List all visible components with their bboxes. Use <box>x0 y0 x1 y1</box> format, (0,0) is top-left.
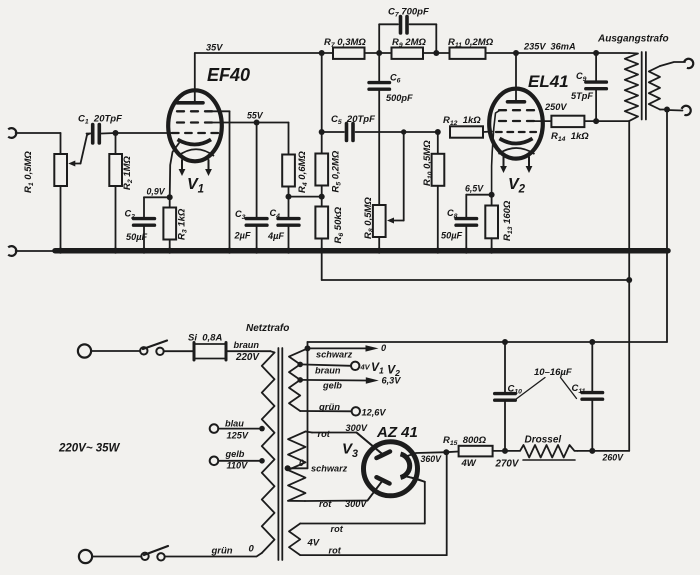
label 125V <box>227 431 249 441</box>
V1 cathode lead <box>170 143 179 197</box>
resistor R7 <box>333 48 365 59</box>
node feedback <box>626 277 632 283</box>
label EF40 <box>207 65 250 85</box>
resistor R4 <box>282 155 295 197</box>
label C1 20TpF <box>78 114 122 126</box>
V1 grid g1 <box>172 132 218 134</box>
capacitor C2 <box>134 197 155 248</box>
bus junction x491.6 <box>489 248 495 254</box>
capacitor C6 <box>369 53 390 205</box>
resistor R15 <box>446 446 505 457</box>
speaker terminal top <box>684 57 695 69</box>
svg-text:gelb: gelb <box>225 449 245 459</box>
tap blau <box>210 424 265 433</box>
label V3 <box>342 441 358 460</box>
wire cathode to C2 <box>144 196 170 198</box>
svg-text:schwarz: schwarz <box>311 464 348 474</box>
label 12,6V <box>362 408 387 418</box>
V1 heater arc <box>178 149 214 156</box>
node heater 0 tap <box>305 345 311 351</box>
label schwarz <box>316 350 353 360</box>
svg-text:4V: 4V <box>307 538 320 549</box>
node C9 junction <box>593 50 599 56</box>
resistor R3 <box>163 197 176 248</box>
pointer C10 <box>516 378 546 400</box>
label R13 160&#937; <box>502 200 514 241</box>
wire 260V <box>592 450 629 452</box>
wire 4V bottom <box>300 452 447 555</box>
wire feedback below bus <box>322 279 630 281</box>
resistor R11 <box>450 48 486 59</box>
V3 anode 1 <box>357 433 391 459</box>
V3 anode 2 <box>368 477 390 500</box>
svg-text:R9 2MΩ: R9 2MΩ <box>392 37 426 49</box>
ground bus <box>55 248 668 254</box>
label braun heater <box>315 366 341 376</box>
node cathode/R15 <box>443 449 449 455</box>
tube V1 envelope <box>168 90 222 161</box>
wire B+ vertical <box>628 121 630 451</box>
svg-text:EL41: EL41 <box>528 72 569 91</box>
V3 cathode lead top <box>406 452 446 456</box>
label R5 0,2M&#937; <box>331 150 343 192</box>
svg-text:260V: 260V <box>602 453 625 463</box>
resistor R10 <box>432 132 445 249</box>
svg-text:EF40: EF40 <box>207 65 250 85</box>
node 270V <box>502 448 508 454</box>
svg-text:0,9V: 0,9V <box>147 187 166 197</box>
svg-text:AZ 41: AZ 41 <box>376 424 418 441</box>
svg-text:360V: 360V <box>421 454 443 464</box>
resistor R13 <box>485 195 498 249</box>
svg-text:300V: 300V <box>346 423 368 433</box>
node EL41 anode junction <box>513 50 519 56</box>
svg-text:55V: 55V <box>247 111 264 121</box>
bus junction x256.6 <box>254 248 260 254</box>
wire heater 0 to ground line <box>307 342 309 348</box>
mains terminal top <box>78 344 91 357</box>
svg-text:5TpF: 5TpF <box>571 91 593 101</box>
svg-text:35V: 35V <box>206 43 223 53</box>
svg-text:rot: rot <box>319 499 332 509</box>
svg-text:R5 0,2MΩ: R5 0,2MΩ <box>331 150 343 192</box>
svg-text:270V: 270V <box>495 459 520 470</box>
wire to C8 <box>466 194 491 196</box>
node R12/R10 <box>435 129 441 135</box>
wire input <box>16 133 61 154</box>
label 0,9V <box>147 187 166 197</box>
label Drossel <box>525 435 562 446</box>
node R9/R11 junction <box>433 50 439 56</box>
4V winding <box>289 524 300 556</box>
label C2 <box>125 209 136 221</box>
svg-text:R11 0,2MΩ: R11 0,2MΩ <box>448 37 494 49</box>
label braun <box>234 340 260 350</box>
svg-text:4µF: 4µF <box>267 231 284 241</box>
wire grid1 V1 <box>116 132 177 134</box>
node 6,5V <box>489 192 495 198</box>
V1 heater pin left <box>179 160 186 176</box>
label V1 <box>187 176 204 196</box>
capacitor C8 <box>456 195 477 249</box>
label gruen 0 <box>211 544 255 557</box>
switch S bottom <box>141 546 168 561</box>
V2 grid g1 <box>496 131 536 133</box>
svg-text:R4 0,6MΩ: R4 0,6MΩ <box>297 151 309 193</box>
svg-text:6,3V: 6,3V <box>382 376 402 386</box>
label C5 20TpF <box>331 114 375 126</box>
svg-text:220V: 220V <box>235 352 260 363</box>
svg-text:R3 1kΩ: R3 1kΩ <box>177 208 189 240</box>
svg-text:235V 36mA: 235V 36mA <box>523 42 576 52</box>
label 4V <box>307 538 320 549</box>
node R7/R9 junction <box>376 50 382 56</box>
tap gelb heater <box>297 377 378 384</box>
svg-text:R6 50kΩ: R6 50kΩ <box>333 206 345 243</box>
label R7 0,3M&#937; <box>324 37 366 49</box>
svg-text:2µF: 2µF <box>234 231 251 241</box>
svg-text:braun: braun <box>315 366 341 376</box>
label 360V <box>421 454 443 464</box>
label Netztrafo <box>246 323 289 334</box>
fuse Si 0,8A <box>194 343 226 361</box>
svg-text:300V: 300V <box>345 499 367 509</box>
node 0,9V <box>167 194 173 200</box>
resistor R12 <box>450 126 492 137</box>
label 110V <box>227 461 249 471</box>
label R12 1k&#937; <box>443 115 481 127</box>
node R5/R6 <box>319 194 325 200</box>
input terminal bottom <box>8 246 16 256</box>
label gruen heater <box>318 402 340 413</box>
svg-text:R13 160Ω: R13 160Ω <box>502 200 514 241</box>
wire B+ rail 35V/235V <box>195 52 629 54</box>
svg-text:blau: blau <box>225 419 244 429</box>
pointer C11 <box>561 378 577 399</box>
bus junction x288.5 <box>285 248 291 254</box>
svg-text:C7 700pF: C7 700pF <box>388 7 429 19</box>
bus junction x169.7 <box>167 248 173 254</box>
mains transformer core <box>278 348 282 560</box>
node C10 ground <box>502 339 508 345</box>
svg-text:50µF: 50µF <box>441 231 463 241</box>
speaker terminal bottom <box>681 104 692 116</box>
resistor R6 <box>315 207 328 281</box>
label 500pF <box>386 93 413 103</box>
svg-text:grün: grün <box>318 402 340 413</box>
svg-text:0: 0 <box>381 343 387 353</box>
capacitor C7 <box>379 17 436 54</box>
svg-text:R12 1kΩ: R12 1kΩ <box>443 115 481 127</box>
wire fuse-primary <box>226 351 275 352</box>
tube V2 envelope <box>489 89 543 159</box>
V2 grid g3 <box>492 110 534 195</box>
label 6,3V <box>382 376 402 386</box>
label 4V V1 V2 <box>360 360 401 378</box>
capacitor C4 <box>278 197 299 249</box>
wire choke right <box>578 450 593 452</box>
svg-text:C5 20TpF: C5 20TpF <box>331 114 375 126</box>
label 300V bottom <box>345 499 367 509</box>
wire HV top rot 300V <box>306 432 384 455</box>
bus junction x115.5 <box>112 248 118 254</box>
node secondary bottom <box>664 107 670 113</box>
output transformer core <box>642 52 646 120</box>
resistor R2 <box>109 133 122 249</box>
svg-text:R7 0,3MΩ: R7 0,3MΩ <box>324 37 366 49</box>
label C9 <box>576 71 587 83</box>
wire anode column <box>321 53 323 154</box>
resistor R5 <box>315 154 328 207</box>
label Ausgangstrafo <box>597 34 669 45</box>
label gelb 110 <box>225 449 245 459</box>
wire mains top <box>91 350 140 352</box>
wire mains bottom <box>92 556 141 558</box>
wire secondary to ground line <box>666 110 668 343</box>
label V2 <box>508 176 526 196</box>
label rot 4V top <box>331 524 344 534</box>
HV winding <box>288 432 306 501</box>
label 0 tap <box>299 458 304 468</box>
input terminal top <box>8 128 16 138</box>
V1 cathode <box>178 140 212 145</box>
label C8 <box>447 208 458 220</box>
mains transformer primary <box>262 353 275 554</box>
HV center tap <box>285 465 308 471</box>
label R4 0,6M&#937; <box>297 151 309 193</box>
node 260V <box>589 448 595 454</box>
label 0 schwarz <box>381 343 387 353</box>
svg-text:braun: braun <box>234 340 260 350</box>
svg-text:rot: rot <box>318 429 331 439</box>
label R11 0,2M&#937; <box>448 37 494 49</box>
V1 anode <box>177 53 203 103</box>
label 6,5V <box>465 184 484 194</box>
svg-text:12,6V: 12,6V <box>362 408 387 418</box>
svg-text:R1 0,5MΩ: R1 0,5MΩ <box>23 151 35 193</box>
label AZ 41 <box>376 424 418 441</box>
V2 heater arc <box>499 148 535 154</box>
bus junction x60.5 <box>57 248 63 254</box>
V1 grid g3 <box>177 111 230 248</box>
bus junction x466.3 <box>463 248 469 254</box>
svg-text:Si 0,8A: Si 0,8A <box>188 333 222 344</box>
label 50uF <box>126 232 148 242</box>
wire input bottom <box>16 250 57 252</box>
label EL41 <box>528 72 569 91</box>
potentiometer R1 <box>54 134 90 249</box>
label 50uF C8 <box>441 231 463 241</box>
label R3 1k&#937; <box>177 208 189 240</box>
label rot bottom <box>319 499 332 509</box>
node C5 tap <box>319 129 325 135</box>
wire screen to primary <box>596 120 629 122</box>
capacitor C1 <box>87 125 116 144</box>
capacitor C10 <box>495 342 516 451</box>
label 55V <box>247 111 264 121</box>
svg-text:0: 0 <box>249 544 255 555</box>
label R14 1k&#937; <box>551 131 589 143</box>
label gelb heater <box>322 381 342 391</box>
label R2 1M&#937; <box>122 156 134 190</box>
bus junction x321.7 <box>319 248 325 254</box>
bus junction x229.5 <box>226 248 232 254</box>
node R4/C4 <box>286 194 292 200</box>
label 270V <box>495 459 520 470</box>
capacitor C3 <box>246 123 267 249</box>
node C11 ground <box>589 339 595 345</box>
label schwarz tap <box>311 464 348 474</box>
tube V3 envelope <box>364 442 418 496</box>
wire schwarz 0 <box>308 345 379 351</box>
svg-text:Ausgangstrafo: Ausgangstrafo <box>597 34 669 45</box>
label R9 2M&#937; <box>392 37 426 49</box>
label R8 0,5M&#937; <box>363 197 375 239</box>
V2 grid g2 screen <box>499 120 551 122</box>
label 300V top <box>346 423 368 433</box>
V2 heater pin left <box>500 157 507 173</box>
tap gruen heater <box>300 407 360 415</box>
wire 4V top <box>300 477 425 524</box>
svg-text:R14 1kΩ: R14 1kΩ <box>551 131 589 143</box>
svg-text:4W: 4W <box>461 458 477 469</box>
label C3 <box>235 209 246 221</box>
label 220V <box>235 352 260 363</box>
node V1 anode junction <box>319 50 325 56</box>
node C9/R14 <box>593 118 599 124</box>
output transformer primary <box>625 53 638 121</box>
svg-text:500pF: 500pF <box>386 93 413 103</box>
V3 cathode lead bottom <box>406 477 425 482</box>
switch S top <box>140 341 167 355</box>
wire HV bottom rot 300V <box>288 481 383 502</box>
label 35V <box>206 43 223 53</box>
label C10 <box>508 384 523 396</box>
V2 cathode <box>500 139 533 144</box>
svg-text:gelb: gelb <box>322 381 342 391</box>
mains terminal bottom <box>79 550 92 563</box>
tap gelb <box>210 457 265 466</box>
label R1 0,5M&#937; <box>23 151 35 193</box>
wire ground line <box>308 341 668 343</box>
resistor R9 <box>392 48 424 59</box>
svg-text:10–16µF: 10–16µF <box>534 367 572 378</box>
svg-text:grün: grün <box>211 546 233 557</box>
label 260V <box>602 453 625 463</box>
svg-text:R8 0,5MΩ: R8 0,5MΩ <box>363 197 375 239</box>
capacitor C5 <box>322 124 438 141</box>
svg-text:C1 20TpF: C1 20TpF <box>78 114 122 126</box>
wire secondary top <box>660 62 685 66</box>
heater winding <box>289 348 308 411</box>
wire 55V to R4 <box>257 123 289 155</box>
svg-text:rot: rot <box>329 546 342 556</box>
bus junction x144 <box>141 248 147 254</box>
label 235V 36mA <box>523 42 576 52</box>
label C7 700pF <box>388 7 429 19</box>
wire switch-fuse <box>164 350 193 352</box>
label 4W <box>461 458 477 469</box>
resistor R14 <box>551 116 596 127</box>
label 5TpF <box>571 91 593 101</box>
svg-text:R2 1MΩ: R2 1MΩ <box>122 156 134 190</box>
V2 anode <box>508 53 525 102</box>
svg-text:50µF: 50µF <box>126 232 148 242</box>
label R6 50k&#937; <box>333 206 345 243</box>
wire 0 vertical <box>307 348 309 468</box>
label R15 800&#937; <box>443 435 487 447</box>
label rot top <box>318 429 331 439</box>
V1 heater pin right <box>205 160 212 176</box>
V1 grid g2 screen <box>177 121 257 123</box>
output transformer secondary <box>649 66 660 110</box>
svg-text:schwarz: schwarz <box>316 350 353 360</box>
label Si 0,8A <box>188 333 222 344</box>
label 4uF <box>267 231 284 241</box>
label C11 <box>572 383 586 395</box>
label 220V~ 35W <box>58 443 121 455</box>
label R10 0,5M&#937; <box>422 140 434 186</box>
bus junction x437.8 <box>435 248 441 254</box>
node 55V <box>254 120 260 126</box>
svg-text:4V: 4V <box>360 363 371 372</box>
label blau <box>225 419 244 429</box>
potentiometer R8 <box>373 132 404 249</box>
label 2uF <box>234 231 251 241</box>
svg-text:250V: 250V <box>544 102 567 112</box>
label rot 4V bottom <box>329 546 342 556</box>
svg-text:125V: 125V <box>227 431 249 441</box>
choke Drossel <box>505 445 578 460</box>
svg-text:6,5V: 6,5V <box>465 184 484 194</box>
V3 cathode <box>401 454 410 478</box>
svg-text:R15 800Ω: R15 800Ω <box>443 435 487 447</box>
wire R4-R5 node <box>289 196 322 198</box>
capacitor C11 <box>582 342 603 451</box>
svg-text:rot: rot <box>331 524 344 534</box>
svg-text:110V: 110V <box>227 461 249 471</box>
label 10-16uF <box>534 367 572 378</box>
svg-text:Netztrafo: Netztrafo <box>246 323 289 334</box>
wire secondary bottom <box>660 110 683 111</box>
node R8 wiper tap <box>401 129 406 134</box>
svg-text:220V~ 35W: 220V~ 35W <box>58 443 121 455</box>
tap braun heater <box>297 362 359 370</box>
node grid V1 <box>113 130 119 136</box>
label 250V <box>544 102 567 112</box>
label C4 <box>270 208 281 220</box>
label C6 <box>390 73 401 85</box>
svg-text:Drossel: Drossel <box>525 435 562 446</box>
V2 heater pin right <box>526 157 533 173</box>
bus junction x379.2 <box>376 248 382 254</box>
wire primary bottom <box>165 553 262 557</box>
capacitor C9 <box>586 53 607 121</box>
